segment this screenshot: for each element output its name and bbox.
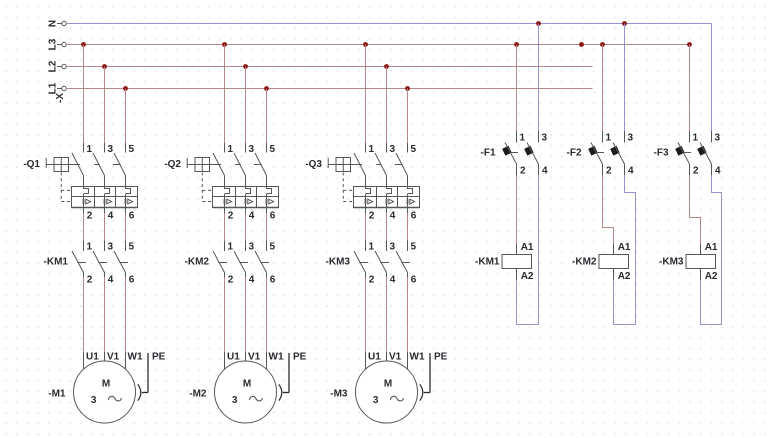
- wire Q3 pin 2 to KM3 contact: [365, 208, 367, 241]
- Q2 magnetic trip element: [225, 197, 232, 208]
- contactor coil KM3: [686, 244, 716, 280]
- Q1 pole 3 contact: [93, 143, 105, 187]
- junction L3 (stub): [579, 42, 584, 47]
- svg-text:A1: A1: [521, 242, 534, 253]
- breaker Q2 handle: [187, 158, 209, 172]
- wire N to F1 pin 3: [538, 24, 540, 132]
- wire Q3 pin 4 to KM3 contact: [386, 208, 388, 241]
- svg-text:5: 5: [270, 241, 276, 252]
- Q1 thermal overload element: [126, 187, 131, 197]
- svg-text:-M3: -M3: [330, 389, 348, 400]
- Q2 pole 3 contact: [234, 143, 246, 187]
- wire F1 pin 2 to coil KM1 A1: [516, 175, 518, 244]
- F3 pole fuse body: [675, 146, 685, 156]
- motor M1 PE clamp: [138, 384, 141, 400]
- contactor coil KM2: [599, 244, 629, 280]
- breaker Q1 handle: [46, 158, 68, 172]
- svg-text:6: 6: [270, 210, 276, 221]
- svg-text:4: 4: [628, 165, 634, 176]
- svg-text:PE: PE: [434, 352, 448, 363]
- svg-text:2: 2: [228, 210, 234, 221]
- wire N to F3 pin 3: [711, 24, 713, 132]
- svg-text:A1: A1: [705, 242, 718, 253]
- motor M3 PE clamp: [420, 384, 423, 400]
- svg-text:M: M: [384, 379, 392, 390]
- wire L3 to F3 pin 1: [689, 45, 691, 132]
- svg-text:3: 3: [249, 144, 255, 155]
- motor M2 PE clamp: [279, 384, 282, 400]
- Q1 magnetic trip element: [105, 197, 112, 208]
- F1 pole fuse body: [502, 146, 512, 156]
- wire KM3 pin 2 to motor M3: [365, 277, 367, 352]
- junction N / coil branch 1: [536, 21, 541, 26]
- svg-text:4: 4: [390, 274, 396, 285]
- svg-text:U1: U1: [368, 352, 381, 363]
- KM3 main contact pole: [375, 241, 389, 278]
- terminal N of strip -X: [57, 21, 66, 25]
- svg-text:W1: W1: [128, 352, 143, 363]
- svg-text:-F3: -F3: [654, 148, 669, 159]
- svg-text:-F1: -F1: [481, 148, 496, 159]
- svg-text:PE: PE: [152, 352, 166, 363]
- wire F2 pin 2 to coil KM2 A1: [603, 175, 614, 244]
- junction N / coil branch 2: [622, 21, 627, 26]
- svg-text:1: 1: [693, 132, 699, 143]
- wire L1 to Q1 pin 5: [125, 89, 127, 144]
- motor M2 body: [215, 361, 277, 423]
- svg-text:4: 4: [715, 165, 721, 176]
- KM2 main contact pole: [213, 241, 227, 278]
- KM1 main contact pole: [72, 241, 86, 278]
- KM2 main contact pole: [255, 241, 269, 278]
- motor M2 AC tilde: [249, 396, 262, 401]
- Q3 thermal overload element: [408, 187, 413, 197]
- svg-text:1: 1: [369, 144, 375, 155]
- wire coil KM2 A2 to F2 pin 4 (N return): [614, 175, 636, 325]
- F3 pole fuse body: [697, 146, 707, 156]
- svg-text:3: 3: [373, 395, 379, 406]
- KM3 main contact pole: [396, 241, 410, 278]
- svg-text:3: 3: [542, 132, 548, 143]
- junction L3 / branch 1: [81, 42, 86, 47]
- F2 pole contact: [613, 131, 625, 175]
- wire L1 to Q2 pin 5: [266, 89, 268, 144]
- KM1 main contact pole: [114, 241, 128, 278]
- breaker Q1 linkage: [61, 165, 120, 202]
- svg-text:5: 5: [129, 144, 135, 155]
- svg-text:1: 1: [520, 132, 526, 143]
- svg-text:1: 1: [87, 241, 93, 252]
- junction L2 / branch 1: [102, 64, 107, 69]
- svg-text:2: 2: [369, 274, 375, 285]
- F1 linkage dash: [512, 152, 519, 154]
- svg-text:N: N: [48, 20, 59, 27]
- svg-text:5: 5: [129, 241, 135, 252]
- Q1 thermal overload element: [84, 187, 89, 197]
- wire Q2 pin 6 to KM2 contact: [266, 208, 268, 241]
- svg-text:A2: A2: [618, 271, 631, 282]
- F2 linkage dash: [598, 152, 605, 154]
- svg-text:3: 3: [108, 144, 114, 155]
- terminal L3 of strip -X: [57, 42, 66, 46]
- svg-text:3: 3: [628, 132, 634, 143]
- Q3 thermal overload element: [387, 187, 392, 197]
- wire F3 pin 2 to coil KM3 A1: [690, 175, 701, 244]
- wire Q2 pin 2 to KM2 contact: [224, 208, 226, 241]
- Q1 pole 1 contact: [72, 143, 84, 187]
- svg-text:L2: L2: [48, 60, 59, 72]
- contactor coil KM1: [502, 244, 532, 280]
- svg-text:-Q1: -Q1: [23, 159, 40, 170]
- Q2 thermal overload element: [225, 187, 230, 197]
- svg-text:4: 4: [108, 210, 114, 221]
- Q2 pole 1 contact: [213, 143, 225, 187]
- wire KM1 pin 2 to motor M1: [83, 277, 85, 352]
- svg-text:6: 6: [411, 210, 417, 221]
- Q3 pole 5 contact: [396, 143, 408, 187]
- KM1 main contact pole: [93, 241, 107, 278]
- junction L3 / branch 2: [222, 42, 227, 47]
- junction L3 / fuse F2: [600, 42, 605, 47]
- svg-text:6: 6: [411, 274, 417, 285]
- F1 pole contact: [505, 131, 517, 175]
- svg-text:2: 2: [693, 165, 699, 176]
- Q1 thermal overload element: [105, 187, 110, 197]
- Q1 magnetic trip element: [126, 197, 133, 208]
- svg-text:2: 2: [228, 274, 234, 285]
- svg-text:M: M: [243, 379, 251, 390]
- Q2 magnetic trip element: [246, 197, 253, 208]
- wire L3 to F1 pin 1: [516, 45, 518, 132]
- Q3 magnetic trip element: [387, 197, 394, 208]
- svg-text:4: 4: [108, 274, 114, 285]
- svg-text:W1: W1: [410, 352, 425, 363]
- svg-text:3: 3: [715, 132, 721, 143]
- motor M3 pins: [366, 352, 408, 370]
- junction L1 / branch 1: [123, 86, 128, 91]
- wire KM1 pin 4 to motor M1: [104, 277, 106, 352]
- svg-text:4: 4: [390, 210, 396, 221]
- wire L1 to Q3 pin 5: [407, 89, 409, 144]
- wire L3 to Q1 pin 1: [83, 45, 85, 144]
- KM2 main contact pole: [234, 241, 248, 278]
- breaker Q3 handle: [328, 158, 350, 172]
- bus L3: [67, 44, 690, 46]
- terminal L1 of strip -X: [57, 86, 66, 90]
- svg-text:5: 5: [411, 144, 417, 155]
- motor M3 AC tilde: [390, 396, 403, 401]
- junction L3 / fuse F1: [514, 42, 519, 47]
- wire coil KM1 A2 to F1 pin 4 (N return): [517, 175, 539, 325]
- wire PE of motor M2: [283, 353, 289, 393]
- svg-text:-KM1: -KM1: [44, 257, 69, 268]
- svg-text:-F2: -F2: [567, 148, 582, 159]
- svg-text:-M2: -M2: [189, 389, 207, 400]
- F2 pole fuse body: [588, 146, 598, 156]
- F1 pole fuse body: [524, 146, 534, 156]
- F3 linkage dash: [685, 152, 692, 154]
- svg-text:-KM3: -KM3: [326, 257, 351, 268]
- Q3 magnetic trip element: [408, 197, 415, 208]
- svg-text:2: 2: [87, 210, 93, 221]
- svg-text:W1: W1: [269, 352, 284, 363]
- svg-text:M: M: [102, 379, 110, 390]
- svg-text:A1: A1: [618, 242, 631, 253]
- bus L2: [67, 66, 593, 68]
- svg-text:2: 2: [520, 165, 526, 176]
- svg-text:3: 3: [249, 241, 255, 252]
- Q1 pole 5 contact: [114, 143, 126, 187]
- svg-text:1: 1: [369, 241, 375, 252]
- wire KM3 pin 6 to motor M3: [407, 277, 409, 352]
- svg-text:3: 3: [108, 241, 114, 252]
- F3 pole contact: [678, 131, 690, 175]
- svg-text:-KM2: -KM2: [185, 257, 210, 268]
- Q2 overload/trip box: [213, 187, 279, 208]
- motor M1 body: [74, 361, 136, 423]
- svg-text:-KM1: -KM1: [475, 257, 500, 268]
- svg-text:-M1: -M1: [48, 389, 66, 400]
- svg-text:3: 3: [91, 395, 97, 406]
- KM3 main contact pole: [354, 241, 368, 278]
- junction L1 / branch 2: [264, 86, 269, 91]
- motor M2 pins: [225, 352, 267, 370]
- Q3 overload/trip box: [354, 187, 420, 208]
- svg-text:2: 2: [606, 165, 612, 176]
- svg-text:5: 5: [411, 241, 417, 252]
- wire KM1 pin 6 to motor M1: [125, 277, 127, 352]
- bus L1: [67, 88, 593, 90]
- Q3 pole 1 contact: [354, 143, 366, 187]
- motor M1 AC tilde: [108, 396, 121, 401]
- wire PE of motor M3: [424, 353, 430, 393]
- F2 pole contact: [591, 131, 603, 175]
- svg-text:1: 1: [87, 144, 93, 155]
- svg-text:3: 3: [390, 144, 396, 155]
- svg-text:L1: L1: [48, 82, 59, 94]
- wire Q1 pin 2 to KM1 contact: [83, 208, 85, 241]
- wire Q1 pin 6 to KM1 contact: [125, 208, 127, 241]
- svg-text:4: 4: [542, 165, 548, 176]
- Q2 pole 5 contact: [255, 143, 267, 187]
- junction L1 / branch 3: [405, 86, 410, 91]
- junction L3 / fuse F3: [687, 42, 692, 47]
- wire PE of motor M1: [142, 353, 148, 393]
- svg-text:1: 1: [606, 132, 612, 143]
- Q3 pole 3 contact: [375, 143, 387, 187]
- Q2 thermal overload element: [246, 187, 251, 197]
- wire L3 to Q2 pin 1: [224, 45, 226, 144]
- wire L3 to F2 pin 1: [602, 45, 604, 132]
- Q3 thermal overload element: [366, 187, 371, 197]
- wire Q1 pin 4 to KM1 contact: [104, 208, 106, 241]
- svg-text:6: 6: [270, 274, 276, 285]
- junction L2 / branch 2: [243, 64, 248, 69]
- svg-text:-KM3: -KM3: [659, 257, 684, 268]
- svg-text:4: 4: [249, 210, 255, 221]
- wire L2 to Q3 pin 3: [386, 67, 388, 144]
- wire coil KM3 A2 to F3 pin 4 (N return): [701, 175, 722, 325]
- svg-text:6: 6: [129, 210, 135, 221]
- Q2 magnetic trip element: [267, 197, 274, 208]
- wire KM2 pin 4 to motor M2: [245, 277, 247, 352]
- wire KM2 pin 6 to motor M2: [266, 277, 268, 352]
- wire N to F2 pin 3: [624, 24, 626, 132]
- svg-text:2: 2: [369, 210, 375, 221]
- bus N (neutral rail): [67, 23, 712, 25]
- svg-text:3: 3: [390, 241, 396, 252]
- F2 pole fuse body: [610, 146, 620, 156]
- svg-text:2: 2: [87, 274, 93, 285]
- svg-text:5: 5: [270, 144, 276, 155]
- svg-text:4: 4: [249, 274, 255, 285]
- wire L2 to Q1 pin 3: [104, 67, 106, 144]
- breaker Q3 linkage: [343, 165, 402, 202]
- svg-text:-Q2: -Q2: [164, 159, 181, 170]
- junction L2 / branch 3: [384, 64, 389, 69]
- svg-text:L3: L3: [48, 38, 59, 50]
- motor M1 pins: [84, 352, 126, 370]
- Q1 magnetic trip element: [84, 197, 91, 208]
- wire KM3 pin 4 to motor M3: [386, 277, 388, 352]
- svg-text:-Q3: -Q3: [305, 159, 322, 170]
- Q2 thermal overload element: [267, 187, 272, 197]
- svg-text:U1: U1: [227, 352, 240, 363]
- wire L2 to Q2 pin 3: [245, 67, 247, 144]
- svg-text:-KM2: -KM2: [572, 257, 597, 268]
- terminal L2 of strip -X: [57, 64, 66, 68]
- wire Q3 pin 6 to KM3 contact: [407, 208, 409, 241]
- F3 pole contact: [700, 131, 712, 175]
- junction L3 / branch 3: [363, 42, 368, 47]
- wire L3 to Q3 pin 1: [365, 45, 367, 144]
- Q3 magnetic trip element: [366, 197, 373, 208]
- F1 pole contact: [527, 131, 539, 175]
- svg-text:-X: -X: [55, 93, 66, 103]
- svg-text:A2: A2: [705, 271, 718, 282]
- svg-text:3: 3: [232, 395, 238, 406]
- svg-text:1: 1: [228, 144, 234, 155]
- svg-text:U1: U1: [86, 352, 99, 363]
- motor M3 body: [356, 361, 418, 423]
- wire Q2 pin 4 to KM2 contact: [245, 208, 247, 241]
- wire KM2 pin 2 to motor M2: [224, 277, 226, 352]
- svg-text:1: 1: [228, 241, 234, 252]
- svg-text:6: 6: [129, 274, 135, 285]
- svg-text:PE: PE: [293, 352, 307, 363]
- Q1 overload/trip box: [72, 187, 138, 208]
- svg-text:A2: A2: [521, 271, 534, 282]
- breaker Q2 linkage: [202, 165, 261, 202]
